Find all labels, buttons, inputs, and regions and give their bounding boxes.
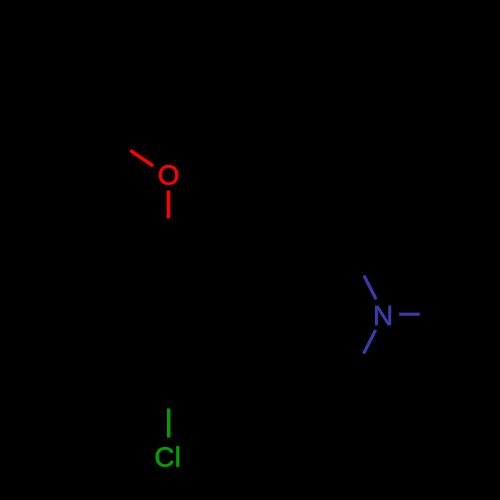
svg-text:O: O (158, 159, 180, 190)
bond O-C(aryl) (half near O), red (167, 191, 171, 219)
svg-text:N: N (373, 300, 393, 331)
bond N-C lower (half near N), blue (364, 330, 376, 354)
svg-text:Cl: Cl (154, 441, 180, 472)
bond C-N upper (half near N), blue (364, 276, 376, 300)
bond CH3-O (half near O), red (130, 150, 153, 166)
bond C-Cl (half near Cl), green (167, 409, 170, 438)
bond N-CH3 (half near N), blue (399, 313, 420, 316)
